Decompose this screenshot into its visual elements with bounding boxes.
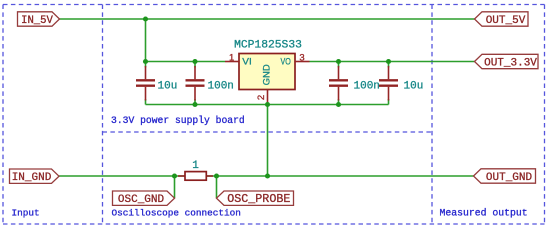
svg-text:Input: Input xyxy=(12,208,40,219)
dashed partition: outer bottom edge xyxy=(3,223,545,225)
hierarchical label IN_GND xyxy=(10,169,60,184)
annotation text: Input xyxy=(12,208,40,219)
regulator U1 pin 3 (VO) stub xyxy=(295,61,310,63)
svg-text:100n: 100n xyxy=(208,81,234,93)
dashed partition: outer left edge xyxy=(2,5,4,225)
wire: 5V drop from top rail down to VI rail xyxy=(145,19,147,62)
hierarchical label OUT_5V xyxy=(475,12,529,27)
hierarchical label OUT_GND xyxy=(474,169,536,184)
hierarchical label IN_5V xyxy=(18,12,60,27)
wire: C4 vertical leads xyxy=(388,62,390,105)
svg-text:Measured output: Measured output xyxy=(440,208,528,219)
svg-text:10u: 10u xyxy=(158,81,178,93)
wire: VI input rail xyxy=(146,61,226,63)
capacitor C3 value 100n xyxy=(354,81,380,93)
svg-text:1: 1 xyxy=(192,160,199,172)
svg-text:OUT_3.3V: OUT_3.3V xyxy=(484,57,537,69)
capacitor C2 value 100n xyxy=(208,81,234,93)
junction: VI rail at C1 xyxy=(143,59,148,64)
svg-text:VO: VO xyxy=(281,57,291,68)
wire: stub down to OSC_GND label xyxy=(174,176,176,198)
junction: bottom rail at OSC_PROBE stub xyxy=(214,173,219,178)
svg-text:2: 2 xyxy=(256,95,267,100)
wire: 3.3V output rail from VO to OUT_3.3V xyxy=(310,61,475,63)
regulator U1 pin number 3 xyxy=(299,52,304,63)
svg-text:1: 1 xyxy=(229,52,234,63)
capacitor C3 xyxy=(329,66,348,101)
junction: ground rail at C2 xyxy=(192,102,197,107)
junction: bottom rail at ground drop xyxy=(265,173,270,178)
resistor R1 value 1 xyxy=(192,160,199,172)
dashed partition: divider between Input and middle sections xyxy=(102,5,104,225)
resistor R1 body xyxy=(178,172,213,181)
wire: ground drop from regulator GND to bottom rail xyxy=(267,105,269,177)
regulator U1 pin 2 (GND) stub xyxy=(267,90,269,105)
svg-text:OUT_5V: OUT_5V xyxy=(486,15,526,27)
svg-text:100n: 100n xyxy=(354,81,380,93)
regulator U1 pin name VI xyxy=(242,57,252,68)
junction: VO rail at C3 xyxy=(336,59,341,64)
wire: GND net from IN_GND to OUT_GND xyxy=(59,175,474,177)
junction: VI rail at C2 xyxy=(192,59,197,64)
regulator U1 pin name VO xyxy=(281,57,291,68)
junction: bottom rail at OSC_GND stub xyxy=(172,173,177,178)
svg-text:MCP1825S33: MCP1825S33 xyxy=(234,40,302,52)
dashed partition: bottom of 3.3V power supply board box xyxy=(103,131,433,133)
capacitor C4 xyxy=(379,66,398,101)
svg-text:3: 3 xyxy=(299,52,304,63)
dashed partition: divider between middle and Measured output sections xyxy=(431,5,433,225)
junction: top rail at 5V drop xyxy=(143,16,148,21)
svg-text:Oscilloscope connection: Oscilloscope connection xyxy=(112,208,241,219)
svg-text:GND: GND xyxy=(261,64,272,85)
annotation text: Measured output xyxy=(440,208,528,219)
wire: capacitor ground rail xyxy=(146,104,389,106)
svg-text:OSC_GND: OSC_GND xyxy=(118,194,165,206)
annotation text: Oscilloscope connection xyxy=(112,208,241,219)
hierarchical label OSC_PROBE xyxy=(217,191,294,206)
regulator U1 pin number 1 xyxy=(229,52,234,63)
hierarchical label OSC_GND xyxy=(113,191,175,206)
dashed partition: outer top edge xyxy=(3,4,545,6)
capacitor C1 value 10u xyxy=(158,81,178,93)
wire: C2 vertical leads xyxy=(194,62,196,105)
capacitor C2 xyxy=(186,66,205,101)
junction: ground rail at C3 xyxy=(336,102,341,107)
regulator U1 pin number 2 xyxy=(256,95,267,100)
regulator U1 pin name GND xyxy=(261,64,272,85)
regulator U1 value MCP1825S33 xyxy=(234,40,302,52)
wire: 5V net from IN_5V to OUT_5V xyxy=(60,18,475,20)
svg-text:3.3V power supply board: 3.3V power supply board xyxy=(111,115,245,126)
svg-text:OSC_PROBE: OSC_PROBE xyxy=(227,192,290,206)
svg-text:IN_GND: IN_GND xyxy=(12,172,52,184)
regulator U1 body xyxy=(239,54,295,90)
dashed partition: outer right edge xyxy=(544,5,546,225)
svg-text:IN_5V: IN_5V xyxy=(21,15,53,27)
wire: C1 vertical leads xyxy=(145,62,147,105)
hierarchical label OUT_3.3V xyxy=(475,54,539,69)
capacitor C1 xyxy=(136,66,155,101)
wire: C3 vertical leads xyxy=(338,62,340,105)
svg-text:VI: VI xyxy=(242,57,252,68)
wire: stub down to OSC_PROBE label xyxy=(216,176,218,198)
regulator U1 pin 1 (VI) stub xyxy=(225,61,239,63)
junction: VO rail at C4 xyxy=(386,59,391,64)
svg-text:OUT_GND: OUT_GND xyxy=(486,172,533,184)
svg-text:10u: 10u xyxy=(404,81,424,93)
annotation text: 3.3V power supply board xyxy=(111,115,245,126)
junction: ground rail at regulator GND pin xyxy=(265,102,270,107)
capacitor C4 value 10u xyxy=(404,81,424,93)
